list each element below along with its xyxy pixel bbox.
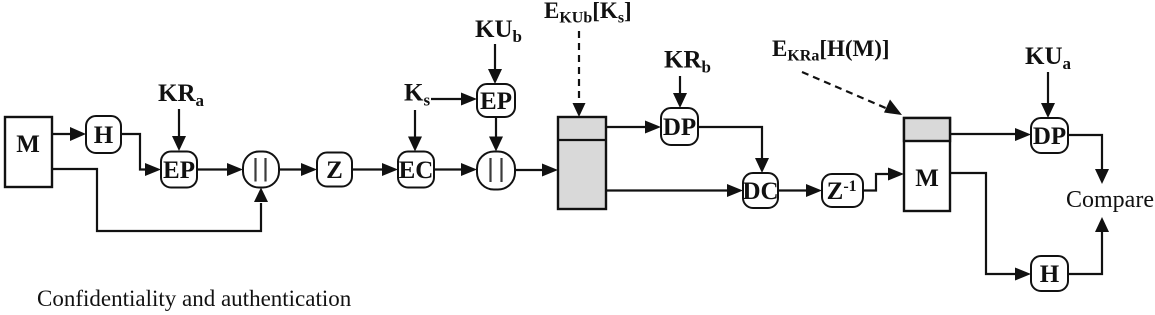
wire KUb down (494, 44, 496, 70)
wire box1 top to DP1 (606, 126, 647, 128)
wire EP1 to concat1 (197, 168, 229, 170)
wire EP2 down to concat2 (495, 117, 497, 137)
wire Z to EC (352, 168, 384, 170)
wire Ks down to EC (414, 110, 416, 137)
svg-text:EP: EP (163, 157, 195, 184)
svg-text:Compare: Compare (1066, 187, 1154, 213)
arrowhead into EP2 top (488, 69, 502, 84)
svg-text:DP: DP (1033, 123, 1066, 150)
svg-text:H: H (1040, 261, 1060, 288)
arrowhead into box1 left (542, 164, 558, 177)
arrowhead into H (70, 127, 86, 141)
arrowhead into concat1 (227, 163, 243, 176)
node DP1 (public-key decrypt) (661, 108, 698, 145)
wire H2 to Compare (1068, 231, 1102, 274)
arrowhead into EP left (145, 163, 161, 176)
arrowhead into M2 left (888, 168, 904, 181)
svg-text:DP: DP (663, 114, 696, 141)
arrowhead into DC left (727, 184, 743, 197)
node H2 (hash for verify) (1031, 256, 1068, 291)
svg-text:Z: Z (827, 178, 844, 205)
node Zinv (decompression Z^-1) (822, 174, 863, 207)
node EC (symmetric encrypt) (398, 152, 434, 188)
node EP2 (public-key encrypt session key) (477, 84, 515, 117)
svg-text:-1: -1 (843, 178, 856, 195)
wire EC to concat2 (434, 168, 463, 170)
arrowhead into EC (382, 163, 398, 176)
arrowhead into Zinv (806, 184, 822, 197)
arrowhead into DP1 top (673, 93, 687, 108)
svg-text:H: H (94, 122, 114, 149)
svg-text:M: M (16, 131, 40, 158)
wire concat2 to box1 (515, 169, 544, 171)
wire DP2 to Compare (1068, 135, 1102, 170)
dashed wire EKUb[Ks] down to box1 (578, 31, 580, 102)
node H1 (hash) (86, 116, 121, 153)
wire H to EP (121, 134, 146, 170)
arrowhead into H2 left (1015, 268, 1031, 281)
arrowhead into concat2 top (489, 137, 503, 152)
svg-text:EC: EC (399, 157, 434, 184)
arrowhead into Z (301, 163, 317, 176)
node EP1 (public-key encrypt) (161, 152, 197, 188)
wire KUa down (1047, 72, 1049, 104)
block box1 (transmitted message, shaded) (558, 117, 606, 209)
node DC (symmetric decrypt) (742, 173, 778, 208)
arrowhead down to Compare (1095, 169, 1109, 184)
wire KRb down (679, 76, 681, 94)
wire M to H (53, 133, 72, 135)
arrowhead into EP top (172, 136, 186, 151)
svg-text:Z: Z (326, 157, 343, 184)
block M2 (received, with shaded signature part) (904, 118, 950, 211)
wire M2 to H2 (950, 173, 1017, 274)
wire KRa down (178, 109, 180, 137)
svg-text:EP: EP (480, 88, 512, 115)
node Z (compression) (317, 153, 352, 187)
node concat2 (||) (477, 152, 515, 190)
wire concat1 to Z (279, 168, 303, 170)
arrowhead up to Compare (1095, 217, 1109, 232)
svg-text:M: M (915, 165, 939, 192)
arrowhead into DC top (755, 158, 769, 173)
arrowhead into DP2 (1015, 128, 1031, 141)
node concat1 (||) (243, 152, 279, 188)
node DP2 (verify decrypt) (1031, 118, 1068, 153)
wire box1 bottom to DC (606, 189, 729, 191)
wire M feedback to concat1 bottom (53, 169, 261, 231)
svg-text:Confidentiality and authentica: Confidentiality and authentication (37, 286, 352, 311)
wire Ks right to EP2 (431, 98, 463, 100)
arrowhead into DP2 top (1041, 103, 1055, 118)
dashed wire EKRa diagonal to M2 (802, 72, 888, 109)
arrowhead up into concat1 bottom (254, 188, 268, 203)
svg-text:DC: DC (742, 178, 778, 205)
arrowhead into concat2 (461, 163, 477, 176)
wire DC to Zinv (778, 189, 808, 191)
arrowhead into EC top (408, 137, 422, 152)
arrowhead into EP2 left (461, 93, 477, 106)
arrowhead into M2 gray top (884, 100, 902, 116)
arrowhead into box1 top (573, 103, 586, 117)
wire DP1 to DC (698, 127, 762, 159)
block M (source message) (5, 117, 52, 187)
wire M2 top to DP2 (950, 133, 1017, 135)
arrowhead into DP1 (645, 121, 661, 134)
wire Zinv to M2 (863, 174, 890, 191)
